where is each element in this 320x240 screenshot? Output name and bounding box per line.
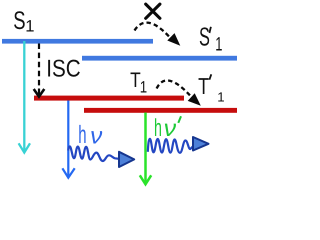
- svg-text:h: h: [154, 115, 162, 142]
- svg-text:ν: ν: [164, 115, 177, 141]
- svg-text:S: S: [199, 21, 210, 51]
- svg-text:1: 1: [140, 78, 147, 97]
- svg-text:T: T: [198, 73, 209, 99]
- svg-text:1: 1: [215, 34, 222, 56]
- svg-text:h: h: [78, 121, 86, 149]
- svg-text:ν: ν: [90, 122, 102, 148]
- svg-text:S: S: [13, 7, 25, 35]
- svg-text:ISC: ISC: [46, 56, 80, 83]
- svg-text:1: 1: [217, 90, 224, 105]
- svg-text:1: 1: [25, 17, 34, 36]
